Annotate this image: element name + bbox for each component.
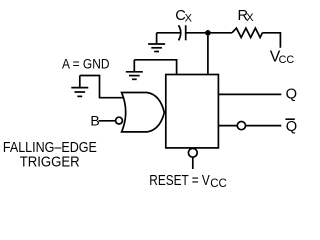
svg-text:X: X xyxy=(185,12,193,24)
ground (A = GND) xyxy=(71,76,88,97)
label RX xyxy=(238,8,255,24)
ground (middle, to box top pin) xyxy=(126,60,143,80)
wire capacitor to resistor xyxy=(186,32,232,34)
label CX xyxy=(175,8,192,24)
wire output Q-bar xyxy=(218,125,281,127)
svg-text:TRIGGER: TRIGGER xyxy=(20,154,80,170)
wire junction down to box top pin xyxy=(207,33,209,75)
or-gate U1 (trigger input gate) xyxy=(122,93,165,132)
wire A=GND to gate top input xyxy=(80,76,127,98)
junction node dot xyxy=(205,30,211,36)
label FALLING-EDGE TRIGGER xyxy=(3,140,97,171)
resistor RX zigzag xyxy=(232,28,262,37)
svg-text:RESET = V: RESET = V xyxy=(149,173,210,189)
svg-text:CC: CC xyxy=(210,178,227,190)
wire B input xyxy=(99,120,116,122)
overbar of Q-bar label xyxy=(285,118,294,120)
ground (capacitor left plate ground) xyxy=(148,33,165,52)
svg-text:Q: Q xyxy=(286,119,297,135)
svg-text:Q: Q xyxy=(286,87,297,103)
svg-text:CC: CC xyxy=(279,54,295,66)
one-shot box U2 xyxy=(166,75,219,148)
wire resistor to VCC corner xyxy=(262,33,280,48)
svg-text:A = GND: A = GND xyxy=(62,57,110,72)
wire output Q xyxy=(218,93,281,95)
bubble on Q-bar output xyxy=(237,122,245,130)
capacitor CX flat plate xyxy=(185,25,187,40)
wire mid ground to box top pin xyxy=(134,60,176,75)
label RESET = VCC xyxy=(149,173,227,190)
svg-text:B: B xyxy=(90,113,99,129)
bubble on B input xyxy=(116,117,123,124)
label VCC top right xyxy=(270,48,295,66)
wire reset stem xyxy=(192,157,194,169)
bubble on reset pin xyxy=(188,148,197,157)
wire top-left horizontal to capacitor xyxy=(157,32,180,34)
capacitor CX curved plate xyxy=(179,25,181,40)
svg-text:X: X xyxy=(246,12,254,24)
